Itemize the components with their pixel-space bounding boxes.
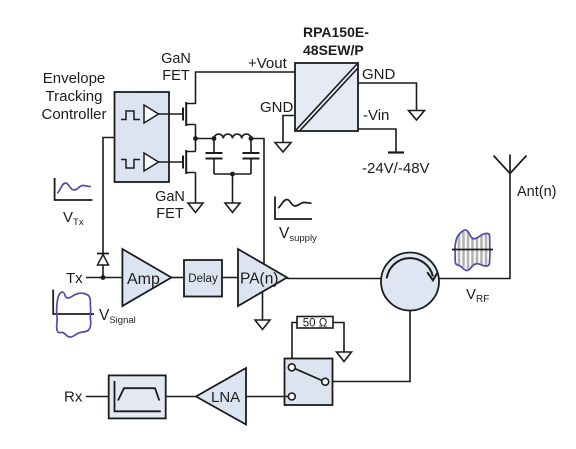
label GaN FET top xyxy=(161,51,191,84)
graph icon V_Tx xyxy=(55,178,93,200)
wire A1 to Q1 gate xyxy=(159,113,184,115)
svg-text:GaN: GaN xyxy=(161,51,191,67)
wire Q2 drain to mid node xyxy=(195,139,197,152)
svg-text:Tx: Tx xyxy=(66,270,83,287)
switch box xyxy=(285,359,333,406)
node mid junction dot xyxy=(193,136,198,141)
amplifier Amp xyxy=(122,249,171,306)
wire mid node to inductor xyxy=(196,138,215,140)
wire +Vout from Q1 drain to converter xyxy=(196,72,296,104)
ETC controller box xyxy=(115,92,170,182)
wire inductor to PA supply feed xyxy=(251,139,264,266)
resistor 50ohm xyxy=(297,317,333,330)
graph icon V_Signal xyxy=(53,290,94,338)
wire Amp to Delay xyxy=(171,277,184,279)
DC-DC converter U2 box xyxy=(295,63,358,131)
wire Q2 source down xyxy=(195,173,197,204)
capacitor C1 xyxy=(206,139,223,175)
svg-text:Ant(n): Ant(n) xyxy=(517,184,557,200)
wire Q1 source to mid node xyxy=(195,125,197,139)
svg-text:+Vout: +Vout xyxy=(248,55,288,72)
diode D1 xyxy=(97,254,109,266)
ground under PA xyxy=(255,320,270,330)
svg-text:RPA150E-: RPA150E- xyxy=(303,24,369,40)
svg-text:50 Ω: 50 Ω xyxy=(303,318,328,330)
node rail junction dot xyxy=(230,172,235,177)
ground 50ohm xyxy=(337,352,352,362)
svg-text:Controller: Controller xyxy=(41,106,106,123)
wire capacitor bottom rail xyxy=(214,173,251,175)
wire 50ohm right to ground xyxy=(333,323,344,353)
ground under Q2 xyxy=(188,203,203,213)
node inductor-left dot xyxy=(212,136,217,141)
wire ETC input from Tx node xyxy=(103,138,115,278)
wire circulator to antenna xyxy=(439,174,510,279)
wire PA output to circulator xyxy=(287,278,382,280)
ground under LC filter xyxy=(225,203,240,213)
graph icon V_RF xyxy=(452,230,493,270)
wire circulator to switch xyxy=(329,311,411,382)
driver amp A1 (top) xyxy=(121,105,159,123)
svg-text:Amp: Amp xyxy=(127,271,160,288)
svg-text:FET: FET xyxy=(156,206,184,222)
wire A2 to Q2 gate xyxy=(159,161,184,163)
svg-text:GND: GND xyxy=(260,99,294,116)
terminal bar -24V/-48V xyxy=(388,151,404,153)
label RPA150E-48SEW/P xyxy=(303,24,369,58)
wire converter left GND stub xyxy=(283,116,295,143)
label GaN FET bottom xyxy=(155,189,185,222)
circulator xyxy=(381,253,439,311)
node Tx junction dot xyxy=(101,275,106,280)
svg-text:FET: FET xyxy=(162,68,190,84)
inductor L1 xyxy=(214,134,251,138)
filter block xyxy=(109,375,166,418)
wire Rx input xyxy=(86,396,109,398)
wire converter right GND xyxy=(358,83,417,111)
wire PA ground stub xyxy=(262,292,264,320)
wire Tx input xyxy=(86,277,122,279)
svg-text:Rx: Rx xyxy=(64,389,83,406)
graph icon V_supply xyxy=(275,197,312,220)
svg-text:Delay: Delay xyxy=(188,273,218,285)
wire LNA to filter xyxy=(166,396,196,398)
ground converter-left xyxy=(275,143,291,153)
delay block xyxy=(184,260,222,297)
node inductor-right dot xyxy=(249,136,254,141)
svg-text:LNA: LNA xyxy=(211,389,240,406)
ground converter-right xyxy=(409,111,425,121)
svg-text:-Vin: -Vin xyxy=(363,107,389,124)
wire Delay to PA xyxy=(222,277,238,279)
amplifier PA(n) xyxy=(238,249,287,306)
svg-text:PA(n): PA(n) xyxy=(240,271,278,288)
transistor Q1 (top GaN FET) xyxy=(183,102,196,126)
label Envelope Tracking Controller xyxy=(41,70,106,123)
svg-text:48SEW/P: 48SEW/P xyxy=(303,42,364,58)
capacitor C2 xyxy=(243,139,260,175)
transistor Q2 (bottom GaN FET) xyxy=(183,150,196,174)
wire -Vin to supply terminal xyxy=(358,129,396,153)
driver amp A2 (bottom) xyxy=(121,153,159,171)
svg-text:Tracking: Tracking xyxy=(46,88,103,105)
svg-text:-24V/-48V: -24V/-48V xyxy=(362,160,430,177)
svg-text:Envelope: Envelope xyxy=(43,70,106,87)
wire switch to LNA xyxy=(246,396,288,398)
antenna Ant(n) xyxy=(494,155,527,174)
amplifier LNA xyxy=(196,368,246,425)
svg-text:GaN: GaN xyxy=(155,189,185,205)
wire 50ohm left to switch contact xyxy=(292,323,297,365)
svg-text:GND: GND xyxy=(362,66,396,83)
wire rail to ground xyxy=(232,174,234,203)
